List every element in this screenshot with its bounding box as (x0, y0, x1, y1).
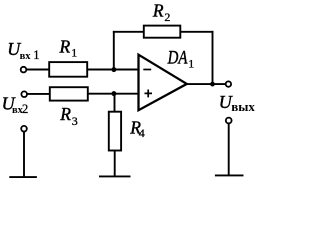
wire right common terminal down (228, 123, 230, 175)
svg-text:вх: вх (20, 51, 32, 62)
pin plus sign of DA1 (145, 90, 153, 98)
wire R3 to op-amp non-inverting input (88, 93, 139, 95)
node Uvx1 input terminal (21, 67, 27, 73)
ground common bottom-right bar (215, 174, 244, 176)
svg-text:вых: вых (231, 99, 255, 114)
svg-text:1: 1 (33, 48, 39, 62)
junction node on output wire (210, 82, 215, 87)
svg-text:1: 1 (71, 45, 77, 59)
wire R1 to op-amp inverting input (88, 69, 140, 71)
node Uvx2 input terminal (21, 91, 27, 97)
wire from non-inverting node down to R4 (114, 94, 116, 113)
wire feedback riser from inverting node up (113, 31, 115, 70)
node Uvyx output terminal (226, 81, 231, 86)
resistor R1 (49, 62, 87, 77)
ground common below R4 (99, 175, 131, 177)
svg-text:2: 2 (22, 102, 28, 116)
junction node at inverting input (111, 67, 116, 72)
wire R2 right to corner (180, 31, 213, 33)
wire Uvx2 terminal to R3 (27, 93, 50, 95)
wire Uvx1 terminal to R1 (26, 69, 49, 71)
node right common terminal (226, 118, 232, 124)
wire left common terminal down (23, 131, 25, 177)
svg-text:1: 1 (188, 56, 194, 70)
resistor R4 (109, 112, 121, 151)
svg-text:3: 3 (72, 114, 78, 128)
pin minus sign of DA1 (143, 69, 151, 71)
resistor R3 (50, 87, 88, 100)
wire feedback top left segment to R2 (113, 31, 144, 33)
node left common terminal (21, 126, 27, 132)
wire op-amp output to terminal (187, 83, 226, 85)
svg-text:DA: DA (167, 47, 188, 68)
svg-text:2: 2 (164, 10, 170, 24)
svg-text:4: 4 (139, 126, 145, 140)
ground common bottom-left bar (9, 176, 37, 178)
op-amp DA1 triangle (139, 55, 187, 110)
svg-text:R: R (59, 37, 71, 57)
wire R4 bottom to ground bar (114, 151, 116, 177)
junction node at non-inverting input (111, 91, 116, 96)
svg-text:R: R (152, 1, 164, 21)
resistor R2 (144, 26, 181, 38)
wire feedback drop down to output (212, 31, 214, 84)
svg-text:R: R (59, 104, 71, 124)
